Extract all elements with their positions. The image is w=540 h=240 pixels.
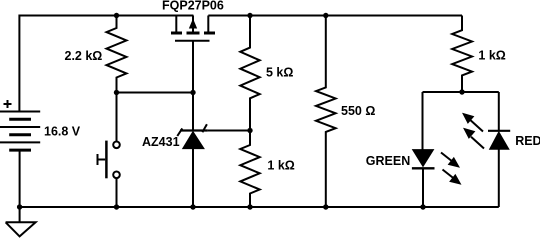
resistor R2 5 kOhm bbox=[240, 16, 259, 131]
wire AZ431 anode to rail bbox=[192, 149, 194, 207]
pushbutton SW1 bbox=[98, 141, 120, 179]
LED D1 GREEN bbox=[412, 150, 435, 169]
wire green LED branch bbox=[422, 92, 424, 150]
wire left vertical from rail to battery bbox=[18, 15, 20, 112]
node dot ref/divider bbox=[247, 128, 252, 133]
node dot rail 550 bbox=[323, 204, 328, 209]
wire red LED bottom bbox=[498, 149, 500, 207]
green LED light arrow 1 bbox=[441, 153, 459, 168]
node dot gate bbox=[190, 90, 195, 95]
svg-text:550 Ω: 550 Ω bbox=[341, 104, 375, 118]
node dot rail battery bbox=[17, 204, 22, 209]
svg-text:AZ431: AZ431 bbox=[142, 135, 180, 149]
wire battery bottom stub bbox=[19, 150, 21, 207]
shunt regulator U1 AZ431 bbox=[177, 124, 207, 148]
green LED light arrow 2 bbox=[443, 170, 461, 185]
transistor Q1 FQP27P06 P-MOSFET bbox=[171, 16, 215, 41]
resistor R3 1 kOhm middle bbox=[240, 131, 259, 208]
svg-text:RED: RED bbox=[515, 134, 540, 148]
node dot top 2.2k bbox=[114, 13, 119, 18]
svg-text:GREEN: GREEN bbox=[366, 154, 410, 168]
wire LED branch top bbox=[423, 91, 499, 93]
wire bottom ground rail bbox=[20, 206, 499, 208]
LED D2 RED bbox=[488, 131, 510, 150]
svg-text:1 kΩ: 1 kΩ bbox=[267, 159, 294, 173]
svg-text:16.8 V: 16.8 V bbox=[44, 125, 81, 139]
node dot rail pushbutton bbox=[114, 204, 119, 209]
node dot top 550 bbox=[323, 13, 328, 18]
svg-text:FQP27P06: FQP27P06 bbox=[162, 0, 224, 12]
node dot rail AZ431 bbox=[190, 204, 195, 209]
wire red LED branch bbox=[498, 92, 500, 131]
svg-text:1 kΩ: 1 kΩ bbox=[478, 49, 505, 63]
wire pushbutton bottom bbox=[116, 178, 118, 207]
node dot rail green LED bbox=[420, 204, 425, 209]
node dot rail 1k bbox=[247, 204, 252, 209]
wire mid horizontal node bbox=[117, 92, 194, 94]
resistor R5 1 kOhm right bbox=[452, 16, 472, 93]
wire pushbutton top bbox=[116, 93, 118, 142]
node dot mid 2.2k/pushbutton bbox=[114, 90, 119, 95]
wire AZ431 ref to divider node bbox=[208, 130, 250, 132]
svg-text:2.2 kΩ: 2.2 kΩ bbox=[65, 49, 103, 63]
battery plus sign bbox=[4, 100, 12, 108]
ground bbox=[6, 207, 36, 236]
resistor R4 550 Ohm bbox=[316, 16, 336, 208]
resistor R1 2.2 kOhm bbox=[107, 16, 127, 93]
red LED light arrow 2 bbox=[464, 129, 484, 149]
wire top rail left bbox=[19, 15, 193, 17]
wire green LED bottom bbox=[422, 168, 424, 207]
red LED light arrow 1 bbox=[463, 114, 483, 132]
battery B1 16.8 V bbox=[0, 112, 40, 151]
svg-text:5 kΩ: 5 kΩ bbox=[266, 66, 293, 80]
wire gate vertical bbox=[192, 41, 194, 131]
node dot LED splitter bbox=[459, 89, 464, 94]
wire top rail right bbox=[208, 15, 462, 17]
node dot top 5k bbox=[247, 13, 252, 18]
